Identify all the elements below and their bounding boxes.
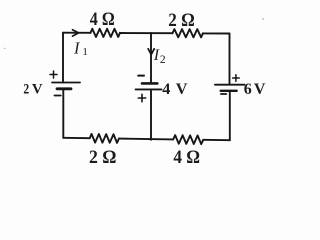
current arrow I2 bbox=[148, 49, 154, 55]
wire left branch lower bbox=[62, 89, 64, 138]
svg-text:1: 1 bbox=[82, 46, 88, 58]
wire bottom-middle segment bbox=[119, 138, 173, 141]
svg-text:V: V bbox=[32, 82, 43, 98]
battery B1 2V negative plate bbox=[57, 87, 71, 90]
svg-text:4: 4 bbox=[162, 80, 170, 98]
wire middle branch upper bbox=[150, 33, 152, 83]
wire top-left segment bbox=[63, 32, 91, 34]
svg-text:2: 2 bbox=[23, 82, 29, 98]
battery B2 4V positive plate bbox=[136, 88, 162, 90]
battery B3 6V negative plate bbox=[221, 90, 237, 92]
wire bottom-right segment bbox=[203, 139, 230, 141]
resistor R4 4Ω (bottom-right) bbox=[173, 135, 203, 144]
battery B1 2V positive plate bbox=[52, 82, 80, 84]
plus sign of B2 bbox=[138, 94, 145, 101]
svg-text:I: I bbox=[153, 47, 160, 64]
svg-text:I: I bbox=[73, 39, 81, 58]
svg-text:6: 6 bbox=[244, 81, 252, 98]
svg-text:2: 2 bbox=[160, 54, 166, 66]
wire top-right segment bbox=[203, 32, 230, 34]
svg-text:2 Ω: 2 Ω bbox=[168, 10, 195, 31]
current arrow I1 bbox=[73, 30, 79, 36]
svg-text:4 Ω: 4 Ω bbox=[90, 9, 115, 30]
minus sign of B1 bbox=[54, 95, 60, 97]
svg-text:V: V bbox=[176, 80, 188, 98]
wire right branch lower bbox=[229, 91, 231, 140]
resistor R1 4Ω (top-left) bbox=[91, 29, 120, 37]
speck artifact left edge bbox=[4, 48, 6, 50]
wire bottom-left segment bbox=[63, 137, 89, 139]
wire left branch upper bbox=[62, 33, 64, 83]
minus sign of B2 bbox=[138, 75, 144, 77]
svg-text:2 Ω: 2 Ω bbox=[89, 147, 117, 168]
resistor R2 2Ω (top-right) bbox=[173, 29, 203, 37]
minus sign of B3 bbox=[221, 93, 226, 95]
resistor R3 2Ω (bottom-left) bbox=[90, 134, 119, 143]
svg-text:V: V bbox=[254, 81, 266, 98]
battery B2 4V negative plate bbox=[142, 82, 157, 85]
wire top-middle segment bbox=[120, 32, 173, 34]
wire middle branch lower bbox=[150, 89, 152, 139]
plus sign of B1 bbox=[50, 71, 57, 78]
wire right branch upper bbox=[229, 34, 231, 85]
battery B3 6V positive plate bbox=[215, 84, 244, 86]
svg-text:4 Ω: 4 Ω bbox=[173, 147, 200, 168]
plus sign of B3 bbox=[233, 75, 240, 82]
speck artifact upper right bbox=[262, 18, 264, 20]
